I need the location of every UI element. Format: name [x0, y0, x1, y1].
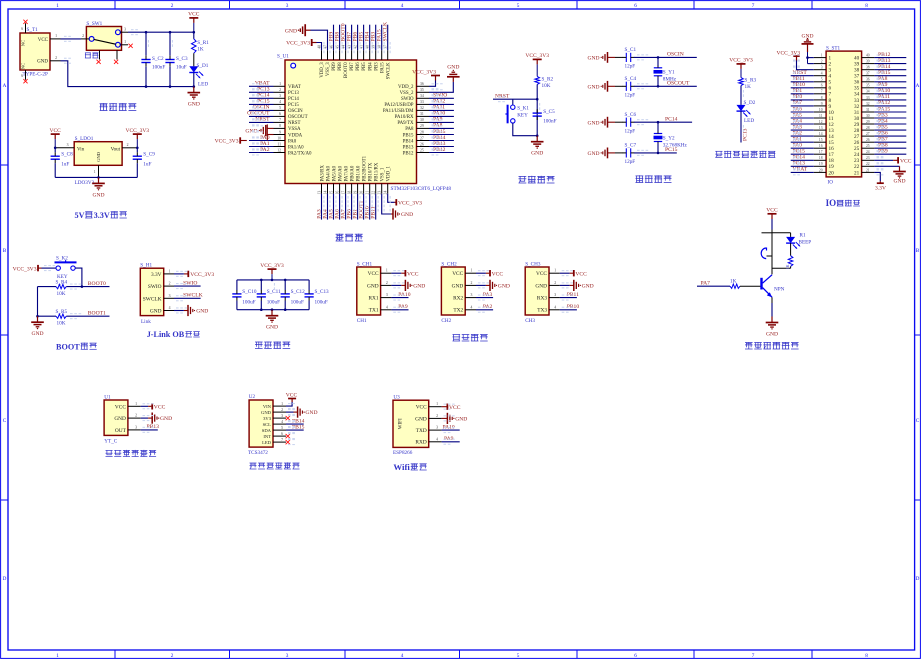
title cheng-xu-yun-xing-zhi-shi-deng — [715, 151, 775, 158]
power port 3.3V io pin 21 — [874, 172, 886, 191]
wire and net label PB7 — [346, 25, 352, 51]
svg-text:12: 12 — [819, 120, 823, 124]
svg-text:GND: GND — [266, 325, 278, 331]
svg-text:100nF: 100nF — [543, 119, 556, 125]
power port VCC_3V3 at PA0 row — [215, 137, 247, 144]
power port VCC_3V3 io pin 3 — [776, 51, 813, 70]
svg-text:1: 1 — [279, 82, 281, 86]
wire and net label PB14 color — [286, 418, 305, 424]
svg-text:100uF: 100uF — [267, 300, 280, 306]
svg-text:VSS_3: VSS_3 — [326, 62, 331, 76]
svg-text:100nF: 100nF — [152, 65, 165, 71]
wire and net label PA5 io-left — [791, 112, 814, 118]
svg-text:32: 32 — [420, 106, 424, 110]
svg-text:NC: NC — [21, 63, 26, 69]
ST1 left pin 12 — [814, 120, 834, 128]
svg-text:24: 24 — [854, 152, 860, 158]
svg-text:35: 35 — [866, 84, 870, 88]
U1 bottom pin 18 PB0/A0 — [347, 165, 355, 194]
svg-text:6: 6 — [634, 3, 637, 9]
svg-text:12: 12 — [277, 148, 281, 152]
wire and net label PA9 io-right — [874, 82, 906, 88]
connector T1 TYPE-C-2P — [20, 27, 50, 78]
svg-text:KEY: KEY — [517, 113, 528, 119]
T1 pin 1 VCC — [50, 34, 61, 39]
svg-text:S_D2: S_D2 — [744, 100, 756, 106]
svg-text:Vin: Vin — [77, 147, 85, 152]
svg-text:1: 1 — [386, 269, 388, 273]
svg-text:RXD: RXD — [415, 440, 426, 446]
wire and net label PB5 — [358, 25, 364, 51]
svg-text:22: 22 — [854, 164, 860, 170]
svg-text:IO: IO — [826, 198, 837, 208]
ST1 right pin 40 — [854, 54, 874, 62]
ST1 left pin 19 — [814, 162, 834, 170]
svg-text:PB5: PB5 — [362, 62, 367, 71]
svg-text:20: 20 — [359, 191, 363, 195]
svg-text:26: 26 — [866, 138, 870, 142]
svg-text:S_R3: S_R3 — [745, 78, 757, 84]
svg-text:PB9: PB9 — [328, 32, 334, 42]
svg-text:33: 33 — [866, 96, 870, 100]
svg-text:10: 10 — [277, 136, 281, 140]
svg-text:SDA: SDA — [262, 428, 272, 433]
svg-text:22: 22 — [372, 191, 376, 195]
ST1 left pin 15 — [814, 138, 834, 146]
U1 top pin 46 PB9 — [329, 45, 337, 71]
wire and net label BOOT0 — [340, 23, 346, 50]
svg-text:NC: NC — [21, 40, 26, 46]
svg-text:GND: GND — [96, 151, 101, 162]
svg-text:2: 2 — [135, 414, 137, 418]
svg-text:GND: GND — [588, 56, 600, 62]
svg-text:NPN: NPN — [774, 287, 785, 293]
power port VCC_3V3 ldo out — [126, 128, 150, 148]
svg-text:VCC: VCC — [900, 158, 912, 164]
svg-text:D: D — [3, 576, 7, 582]
power port GND color — [286, 407, 318, 418]
ST1 right pin 25 — [854, 144, 874, 152]
svg-text:8: 8 — [865, 653, 868, 659]
title chuan-kou-dian-lu — [453, 334, 488, 341]
svg-text:VCC: VCC — [286, 393, 298, 399]
CH3 pin 3 — [549, 293, 560, 298]
svg-text:S_C12: S_C12 — [291, 289, 306, 295]
svg-text:35: 35 — [420, 88, 424, 92]
svg-text:3: 3 — [554, 293, 556, 297]
wire and net label BOOT1 — [358, 194, 364, 220]
ST1 left pin 2 — [814, 60, 832, 68]
svg-text:ESP8266: ESP8266 — [393, 450, 413, 456]
svg-text:CH2: CH2 — [441, 318, 451, 324]
U3 pin 1 — [429, 402, 442, 407]
svg-text:100uF: 100uF — [291, 300, 304, 306]
H1 pin 3 — [164, 294, 174, 299]
U3 pin 3 — [429, 426, 442, 431]
U1 bottom pin 22 PB11/RX — [372, 162, 380, 194]
svg-text:17: 17 — [829, 152, 835, 158]
U1 left pin 2 PC13 — [274, 88, 300, 96]
svg-text:3: 3 — [281, 414, 283, 418]
svg-text:S_C2: S_C2 — [152, 56, 164, 62]
svg-text:6: 6 — [279, 112, 281, 116]
U1 top pin 40 PB4 — [366, 45, 374, 71]
svg-text:3: 3 — [124, 28, 126, 32]
U2 pin 1 — [273, 402, 286, 406]
svg-text:3: 3 — [386, 293, 388, 297]
svg-text:PC15: PC15 — [288, 103, 299, 108]
wire and net label PC13 io-left — [791, 161, 814, 167]
resistor R5 — [56, 309, 68, 327]
svg-text:32: 32 — [866, 102, 870, 106]
wire and net label PA8 — [429, 123, 454, 129]
U1 right pin 34 SWIO — [401, 94, 429, 102]
svg-text:36: 36 — [866, 78, 870, 82]
title ye-ti-chu-fa-mo-kuai — [106, 450, 157, 457]
svg-text:34: 34 — [866, 90, 870, 94]
svg-text:1K: 1K — [785, 264, 790, 269]
svg-text:25: 25 — [420, 148, 424, 152]
wire and net label PA2 CH2 — [476, 304, 493, 310]
svg-text:40: 40 — [866, 54, 870, 58]
wire and net label PA15 — [377, 25, 383, 51]
U1 right pin 26 PB13 — [403, 142, 429, 150]
svg-text:S_C1: S_C1 — [625, 47, 637, 53]
svg-text:32.768KHz: 32.768KHz — [663, 142, 688, 148]
svg-text:3: 3 — [436, 426, 438, 430]
CH1 pin 2 — [381, 281, 392, 286]
svg-text:GND: GND — [160, 416, 172, 422]
power port GND io pin 22 — [874, 166, 905, 184]
svg-text:6: 6 — [281, 432, 283, 436]
wire and net label VBAT io-left — [791, 167, 814, 173]
wire and net label PC13 vertical — [741, 111, 748, 142]
power port VCC — [188, 12, 200, 33]
ST1 left pin 9 — [814, 102, 832, 110]
CH2 pin 2 — [465, 281, 476, 286]
wire and net label NRST — [249, 117, 274, 123]
svg-text:26: 26 — [420, 142, 424, 146]
resistor R1 — [192, 32, 210, 53]
svg-text:PC14: PC14 — [288, 97, 299, 102]
svg-text:VCC_3V3: VCC_3V3 — [190, 272, 214, 278]
svg-text:GND: GND — [801, 33, 813, 39]
ST1 left pin 18 — [814, 156, 834, 164]
svg-text:14: 14 — [323, 191, 327, 195]
svg-text:PC13: PC13 — [288, 91, 299, 96]
wire T1 VCC to SW1 — [61, 38, 82, 40]
svg-text:GND: GND — [188, 102, 200, 108]
svg-text:20: 20 — [819, 168, 823, 172]
capacitor C2 — [141, 32, 165, 86]
svg-text:24: 24 — [866, 150, 870, 154]
svg-text:VCC: VCC — [452, 271, 463, 277]
svg-text:GND: GND — [415, 416, 427, 422]
U1 right pin 36 VDD_2 — [398, 82, 429, 90]
wire and net label PA1 io-left — [791, 137, 814, 143]
svg-text:13: 13 — [819, 126, 823, 130]
svg-text:STM32F103C8T6_LQFP48: STM32F103C8T6_LQFP48 — [391, 186, 452, 192]
svg-text:VCC_3V3: VCC_3V3 — [412, 69, 436, 75]
wire and net label PB14 — [429, 135, 454, 141]
svg-text:4: 4 — [401, 653, 404, 659]
svg-text:GND: GND — [367, 283, 379, 289]
wire K2 to BOOT0 node — [75, 268, 83, 288]
title 5V to 3.3V — [75, 211, 127, 220]
svg-text:10: 10 — [819, 108, 823, 112]
svg-text:S_U1: S_U1 — [277, 54, 289, 60]
svg-text:PA1/A0: PA1/A0 — [288, 145, 304, 150]
svg-text:S_ST1: S_ST1 — [826, 45, 841, 51]
svg-text:GND: GND — [455, 417, 467, 423]
svg-text:21: 21 — [366, 191, 370, 195]
ground GND power circuit — [188, 87, 201, 108]
U1 top pin 48 VDD_3 — [317, 45, 325, 78]
svg-text:1uF: 1uF — [61, 162, 69, 168]
ST1 right pin 36 — [854, 78, 874, 86]
svg-text:PA5/A0: PA5/A0 — [332, 165, 337, 181]
svg-text:PB1/A0: PB1/A0 — [356, 165, 361, 181]
U1 top pin 37 SWCLK — [384, 45, 392, 80]
svg-text:VCC: VCC — [536, 271, 547, 277]
svg-text:S_LDO1: S_LDO1 — [75, 136, 94, 142]
wire and net label PB3 — [371, 25, 377, 51]
U1 bottom pin 14 PA4/A0 — [323, 165, 331, 194]
ground GND reset — [531, 136, 544, 157]
U1 bottom pin 17 PA7/A0 — [341, 165, 349, 194]
capacitor C6 — [615, 112, 636, 135]
LDO1 pin 2 — [122, 143, 137, 148]
svg-text:GND: GND — [447, 65, 459, 71]
svg-text:1: 1 — [94, 170, 96, 174]
svg-text:17: 17 — [819, 150, 823, 154]
svg-text:30: 30 — [866, 114, 870, 118]
resistor R4 — [56, 279, 68, 297]
svg-text:23: 23 — [866, 156, 870, 160]
svg-text:14: 14 — [829, 134, 835, 140]
power port VCC color — [286, 393, 298, 407]
wire emitter to gnd — [771, 297, 773, 316]
svg-text:37: 37 — [854, 74, 860, 80]
U1 right pin 27 PB14 — [403, 136, 429, 144]
svg-text:VCC: VCC — [38, 38, 49, 43]
svg-text:S_C11: S_C11 — [267, 289, 281, 295]
ST1 right pin 28 — [854, 126, 874, 134]
wire and net label NRST io-left — [791, 70, 814, 76]
svg-text:OSCIN: OSCIN — [288, 109, 303, 114]
svg-text:5: 5 — [281, 426, 283, 430]
svg-text:31: 31 — [420, 112, 424, 116]
U1 top pin 47 VSS_3 — [323, 45, 331, 76]
title zhu-xin-pian — [336, 234, 363, 241]
junction dots ldo — [54, 147, 139, 179]
U2 pin 3 — [273, 414, 286, 418]
U1 left pin 11 PA1/A0 — [274, 142, 305, 150]
wire and net label PB13 io-right — [874, 58, 906, 64]
wire and net label PC13 — [249, 87, 274, 93]
svg-text:VSS_1: VSS_1 — [381, 167, 386, 181]
svg-text:GND: GND — [893, 179, 905, 185]
LDO1 pin 3 — [55, 143, 74, 148]
power port GND top of U1 — [285, 24, 328, 50]
ST1 left pin 4 — [814, 72, 832, 80]
pushbutton K1 KEY — [505, 99, 537, 136]
title sheng-guang-bao-jing-dian-lu — [745, 342, 799, 349]
svg-text:INT: INT — [263, 434, 271, 439]
svg-text:S_R2: S_R2 — [542, 76, 554, 82]
svg-text:48: 48 — [317, 45, 321, 49]
svg-text:15: 15 — [329, 191, 333, 195]
wire ldo bottom rail — [55, 176, 137, 178]
power port GND at VSS_2 — [429, 65, 460, 93]
U1 top pin 45 PB8 — [335, 45, 343, 71]
svg-text:39: 39 — [854, 62, 860, 68]
svg-text:25: 25 — [866, 144, 870, 148]
svg-text:VCC_3V3: VCC_3V3 — [215, 139, 239, 145]
module U1 liquid body — [104, 394, 128, 444]
wire and net label PB15 color — [286, 424, 305, 430]
U1 right pin 31 PA10/RX — [395, 112, 429, 120]
wire and net label PA10 wifi — [442, 424, 460, 430]
svg-text:16: 16 — [819, 144, 823, 148]
svg-text:OUT: OUT — [115, 428, 127, 434]
H1 pin 2 — [164, 282, 174, 287]
U1 left pin 8 VSSA — [274, 124, 301, 132]
svg-text:TYPE-C-2P: TYPE-C-2P — [23, 72, 48, 78]
wire and net label PA6 io-left — [791, 106, 814, 112]
wire and net label PB14 io-right — [874, 64, 906, 70]
svg-text:8: 8 — [821, 96, 823, 100]
svg-text:PA4/A0: PA4/A0 — [326, 165, 331, 181]
svg-text:10K: 10K — [542, 83, 551, 89]
filter top rail — [237, 279, 309, 281]
svg-text:OSCIN: OSCIN — [667, 52, 684, 58]
svg-text:VCC_3V3: VCC_3V3 — [776, 51, 800, 57]
SW1 bottom pin no-connect left — [97, 50, 101, 64]
svg-text:VCC: VCC — [115, 404, 126, 410]
title lv-bo-dian-lu — [255, 342, 290, 349]
svg-text:A: A — [916, 83, 920, 89]
CH1 pin 1 — [381, 269, 392, 274]
CH3 pin 2 — [549, 281, 560, 286]
svg-text:28: 28 — [420, 130, 424, 134]
svg-text:8: 8 — [279, 124, 281, 128]
svg-text:S_K1: S_K1 — [517, 105, 529, 111]
svg-text:4: 4 — [169, 306, 171, 310]
svg-text:12pF: 12pF — [625, 159, 636, 165]
ST1 right pin 32 — [854, 102, 874, 110]
filter bottom rail — [237, 309, 309, 311]
svg-text:28: 28 — [866, 126, 870, 130]
wire and net label PC14 io-left — [791, 155, 814, 161]
wire and net label PB10 — [365, 194, 371, 220]
ST1 left pin 10 — [814, 108, 834, 116]
power port VCC alarm — [766, 208, 778, 230]
U1 top pin 38 PA15 — [378, 45, 386, 73]
mosfet Q1 source/drain path — [762, 230, 791, 275]
svg-text:TX2: TX2 — [453, 308, 463, 314]
svg-text:SWCLK: SWCLK — [143, 296, 162, 302]
svg-text:3: 3 — [821, 66, 823, 70]
wire T1 GND to bottom rail — [61, 61, 194, 87]
U1 left pin 9 VDDA — [274, 130, 303, 138]
wire and net label PB10 io-left — [791, 82, 814, 88]
svg-text:3.3V: 3.3V — [151, 272, 162, 278]
svg-text:1K: 1K — [197, 47, 204, 53]
svg-text:GND: GND — [766, 332, 778, 338]
svg-text:TXD: TXD — [416, 428, 427, 434]
svg-text:PA11/USB/DM: PA11/USB/DM — [383, 109, 414, 114]
svg-text:VIN: VIN — [263, 404, 272, 409]
power port VCC io pin 23 — [874, 157, 911, 164]
svg-text:PB4: PB4 — [368, 62, 373, 71]
ST1 right pin 23 — [854, 156, 874, 164]
title yan-se-jian-ce-mo-kuai — [250, 462, 300, 469]
svg-text:5: 5 — [279, 106, 281, 110]
svg-text:S_R5: S_R5 — [56, 309, 68, 315]
svg-text:VCC_3V3: VCC_3V3 — [525, 53, 549, 59]
svg-text:SWCLK: SWCLK — [383, 22, 389, 42]
U1 right pin 32 PA11/USB/DM — [383, 106, 429, 114]
U3 pin 4 — [429, 437, 442, 442]
wire and net label PB5 io-right — [874, 124, 906, 130]
svg-text:5: 5 — [517, 3, 520, 9]
svg-text:GND: GND — [37, 60, 48, 65]
wire and net label PB0 io-left — [791, 94, 814, 100]
wire and net label PA2 io-left — [791, 130, 814, 136]
svg-text:21: 21 — [866, 168, 870, 172]
svg-text:32: 32 — [854, 104, 860, 110]
LED D3 beep branch — [786, 233, 800, 256]
wire and net label SWIO jlink — [174, 280, 201, 286]
title BOOT dian-lu — [56, 342, 97, 351]
SW1 bottom pin no-connect right — [114, 50, 118, 64]
SW1 pin 2 — [81, 34, 89, 39]
U1 right pin 25 PB12 — [403, 148, 429, 156]
power port GND at VSS_1 — [382, 194, 413, 220]
svg-text:2: 2 — [169, 282, 171, 286]
svg-text:39: 39 — [866, 60, 870, 64]
U1 bottom pin 20 PB2/BOOT1 — [359, 155, 367, 194]
wire and net label PC14 — [249, 93, 274, 99]
power port VCC CH2 — [476, 270, 503, 277]
svg-text:U2: U2 — [249, 394, 256, 400]
T1 pin 6 no-connect top — [21, 20, 27, 33]
wire and net label PB13 — [429, 141, 454, 147]
ST1 left pin 7 — [814, 90, 832, 98]
wire and net label OSCIN — [249, 105, 274, 111]
svg-text:TX1: TX1 — [369, 308, 379, 314]
U1 right pin 28 PB15 — [403, 130, 429, 138]
svg-text:2: 2 — [436, 414, 438, 418]
labels R1 BEEP — [799, 233, 812, 246]
mosfet Q1 gate — [761, 248, 766, 259]
ground GND oscin row — [588, 52, 616, 63]
svg-text:PC14: PC14 — [665, 116, 678, 122]
wire PC14 — [634, 116, 692, 122]
no-connect LED — [286, 440, 290, 444]
power port VCC CH3 — [560, 270, 587, 277]
svg-text:S_T1: S_T1 — [27, 27, 39, 33]
svg-text:34: 34 — [854, 92, 860, 98]
svg-text:2: 2 — [554, 281, 556, 285]
header ST1 body — [826, 45, 862, 185]
svg-text:7: 7 — [829, 92, 832, 98]
wire and net label PB9 — [328, 25, 334, 51]
LED D2 — [737, 100, 756, 124]
svg-text:27: 27 — [854, 134, 860, 140]
capacitor C7 — [615, 143, 636, 166]
